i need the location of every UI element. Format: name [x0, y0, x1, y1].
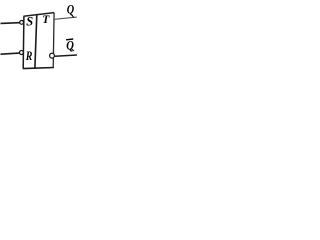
svg-text:R: R [25, 48, 33, 63]
svg-text:T: T [42, 14, 50, 26]
svg-text:S: S [26, 15, 33, 29]
wire: Q output lead [54, 17, 77, 19]
wire: S input lead [1, 22, 20, 25]
Q tail stroke [71, 14, 74, 18]
wire: Q-bar output lead [55, 55, 77, 56]
right edge of body [52, 13, 55, 68]
wire: R input lead [1, 53, 20, 54]
inversion bubble on S input [20, 21, 24, 25]
overbar of Q-bar [66, 38, 73, 41]
latch body: left edge [22, 16, 25, 68]
top edge (slopes up to the right) [24, 13, 55, 17]
T flip-flop (RS trigger) schematic symbol [0, 0, 96, 82]
inversion bubble on Q-bar output [50, 53, 55, 58]
divider between S/R column and T column [35, 15, 37, 68]
inversion bubble on R input [20, 51, 24, 55]
bottom edge [23, 68, 54, 69]
Q-bar tail stroke [71, 48, 74, 51]
